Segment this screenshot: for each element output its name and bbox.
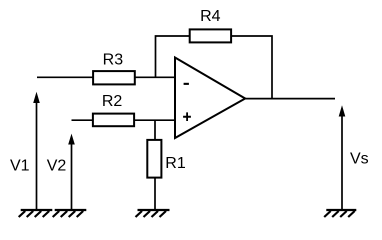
svg-text:R1: R1 <box>165 155 186 172</box>
ground under R1 <box>136 210 170 217</box>
wire minus input (V1 to op-amp inverting input) <box>37 76 175 78</box>
resistor R1 <box>147 140 161 178</box>
op-amp U1 <box>175 58 245 139</box>
svg-text:V2: V2 <box>47 157 67 174</box>
wire R4 feedback branch <box>156 36 273 99</box>
voltage arrow V2 <box>68 134 75 210</box>
op-amp non-inverting input label + <box>183 112 191 121</box>
wire output <box>245 98 335 100</box>
svg-text:R3: R3 <box>103 51 124 68</box>
svg-text:R4: R4 <box>200 8 221 25</box>
op-amp inverting input label - <box>184 83 189 85</box>
wire plus input (V2 to op-amp non-inverting input) <box>72 119 176 121</box>
svg-text:Vs: Vs <box>350 151 369 168</box>
resistor R4 <box>190 29 231 42</box>
ground under V1 <box>19 210 53 217</box>
ground under Vs <box>324 210 356 217</box>
wire R1 branch to ground <box>154 120 156 209</box>
resistor R2 <box>93 114 134 127</box>
svg-text:R2: R2 <box>102 93 123 110</box>
svg-text:V1: V1 <box>10 157 30 174</box>
resistor R3 <box>93 71 135 84</box>
voltage arrow Vs <box>339 105 346 209</box>
voltage arrow V1 <box>33 92 40 210</box>
ground under V2 <box>53 210 87 217</box>
